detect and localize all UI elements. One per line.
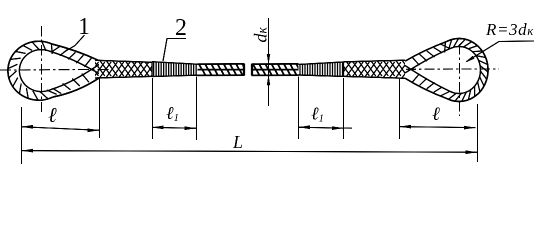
- dimension ℓ1 left splice length: [152, 103, 196, 130]
- left splice section (cross-hatched): [84, 56, 168, 82]
- extension line below right eye (x=477): [477, 104, 479, 162]
- vertical centerline through right eye: [459, 44, 461, 116]
- right splice section (cross-hatched): [336, 56, 420, 82]
- right eye loop (spliced rope eye): [405, 39, 488, 102]
- left serving wrap (vertical hatching): [152, 62, 198, 77]
- extension line at right splice end (x=399.5): [399, 79, 401, 139]
- rope segment right of break: [252, 64, 303, 76]
- extension line at left serving end (x=196): [196, 77, 198, 141]
- radius note R=3dк with leader arrow: [465, 20, 534, 63]
- svg-text:ℓ: ℓ: [432, 104, 440, 125]
- dimension ℓ1 right splice length: [299, 104, 353, 131]
- extension line at left splice start (x=99): [99, 78, 101, 138]
- right serving wrap (vertical hatching): [299, 62, 344, 77]
- vertical centerline through left eye: [41, 26, 43, 112]
- rope diameter dimension dк: [251, 18, 271, 106]
- svg-text:R=3dк: R=3dк: [485, 20, 534, 39]
- callout label 1 (eye): [65, 14, 90, 52]
- extension line below left eye (x=21.5): [21, 107, 23, 164]
- left eye loop (spliced rope eye): [8, 41, 99, 100]
- dimension ℓ left eye length: [22, 103, 100, 132]
- dimension ℓ right eye length: [400, 104, 476, 130]
- extension line at right serving start (x=298.5): [298, 77, 300, 140]
- horizontal centerline through left eye: [0, 68, 113, 71]
- dimension L overall length: [22, 132, 478, 154]
- svg-text:L: L: [232, 132, 243, 152]
- horizontal centerline through right eye: [406, 68, 499, 70]
- callout label 2 (serving): [163, 15, 187, 61]
- svg-text:ℓ: ℓ: [48, 103, 57, 127]
- extension line at left serving start (x=152): [152, 78, 154, 139]
- svg-text:2: 2: [175, 15, 187, 41]
- extension line at right serving end (x=343.5): [343, 78, 345, 139]
- rope segment left of break: [198, 64, 249, 76]
